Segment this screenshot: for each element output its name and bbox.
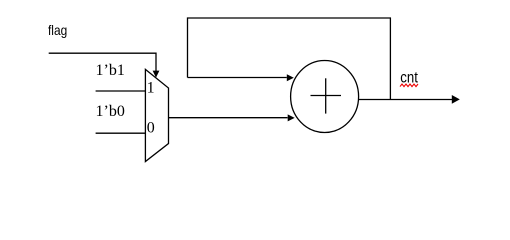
svg-text:flag: flag bbox=[48, 22, 67, 38]
wire 1'b0 input bbox=[96, 132, 146, 134]
arrowhead feedback bbox=[287, 74, 294, 81]
wire flag to mux select bbox=[49, 53, 156, 72]
arrowhead output bbox=[452, 95, 460, 104]
multiplexer MUX bbox=[145, 69, 168, 161]
svg-text:1: 1 bbox=[147, 80, 155, 97]
wire mux output bbox=[169, 117, 288, 119]
wire feedback loop bbox=[188, 18, 391, 100]
arrowhead select bbox=[153, 71, 160, 78]
adder plus sign bbox=[311, 95, 342, 97]
adder U1 bbox=[291, 61, 359, 133]
wire feedback into adder bbox=[188, 77, 287, 79]
wire output cnt bbox=[359, 99, 453, 101]
svg-text:1’b1: 1’b1 bbox=[96, 62, 125, 79]
wire 1'b1 input bbox=[96, 90, 146, 92]
svg-text:1’b0: 1’b0 bbox=[96, 103, 125, 120]
arrowhead mux output bbox=[288, 114, 295, 121]
svg-text:0: 0 bbox=[147, 119, 155, 136]
spellcheck squiggle under cnt bbox=[400, 84, 418, 87]
